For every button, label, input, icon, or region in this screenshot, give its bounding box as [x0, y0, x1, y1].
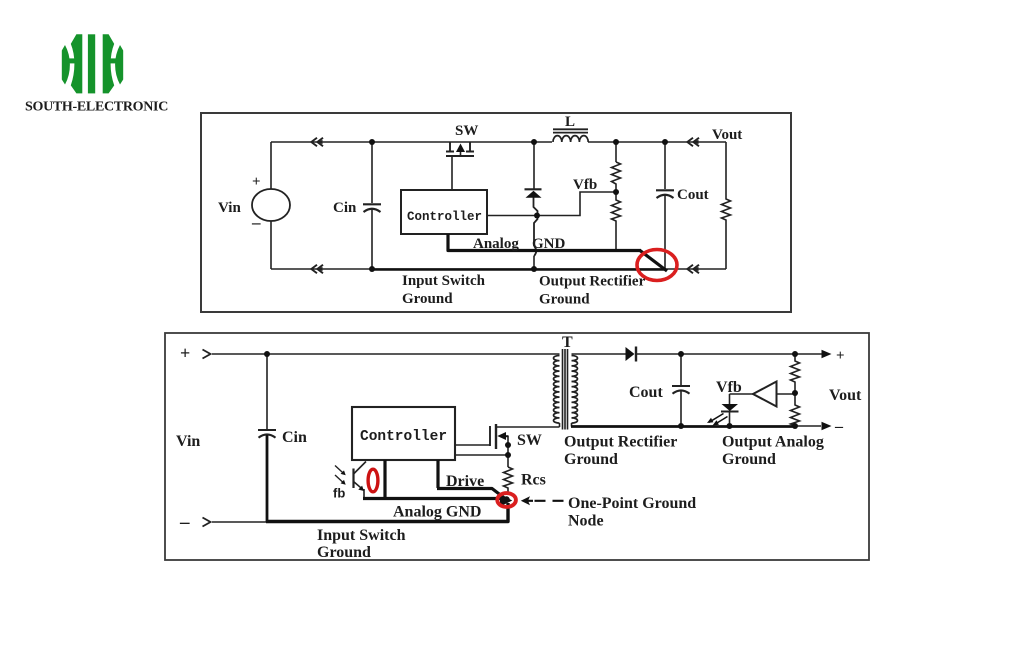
diode D1 triangle [526, 191, 542, 198]
logo right crescent [115, 45, 123, 85]
svg-text:Rcs: Rcs [521, 472, 546, 489]
wire: source sense pin [455, 454, 508, 456]
chevrons top-left [311, 138, 323, 147]
resistor divider lower (top Vfb) [612, 192, 621, 251]
resistor Rcs [504, 467, 513, 493]
thick ground traces (top schematic) [372, 234, 667, 271]
error amplifier triangle [753, 382, 777, 407]
wire: controller fb pin [487, 215, 536, 217]
output arrow minus [822, 422, 832, 430]
svg-text:SW: SW [517, 432, 542, 449]
thick wire: bottom ground rail segment [372, 268, 666, 271]
phototransistor emitter [354, 482, 362, 489]
node divider bottom [792, 423, 798, 429]
svg-text:–: – [251, 213, 261, 232]
emitter arrowhead [358, 486, 364, 491]
thick wire: analog GND trace [448, 234, 641, 251]
inductor L [553, 129, 588, 132]
thick wire: Cin negative lead [266, 435, 269, 522]
wire hop over ground trace [534, 246, 536, 256]
dashed pointer line [527, 500, 566, 502]
resistor divider upper (top Vfb) [615, 142, 617, 162]
wire: source top lead [270, 142, 272, 189]
svg-text:Input Switch: Input Switch [402, 273, 486, 289]
labels (bottom schematic) [176, 334, 862, 561]
controller U1 (top) [401, 190, 487, 234]
logo left crossbar [67, 58, 76, 63]
logo left crescent [62, 45, 70, 85]
capacitor Cin (bottom) [266, 354, 268, 429]
node diode bottom [531, 266, 537, 272]
thick wire: diagonal to output ground [640, 251, 667, 272]
red ellipse mark on fb [368, 469, 378, 492]
logo left bar [71, 34, 83, 93]
chevrons bottom-left [311, 265, 323, 274]
bottom schematic frame [165, 333, 869, 560]
node Cout bottom [678, 423, 684, 429]
node Cout top (bottom schematic) [678, 351, 684, 357]
highlight circle (no-connect mark, top) [637, 250, 677, 281]
thick wire: drive trace [437, 460, 505, 499]
one-point ground node [503, 496, 509, 502]
logo right crossbar [109, 58, 118, 63]
svg-text:fb: fb [333, 486, 345, 501]
wire: source column [507, 436, 509, 467]
junction dots (top schematic) [369, 139, 668, 272]
capacitor Cout (bottom) [680, 354, 682, 385]
output arrow plus [822, 350, 832, 358]
svg-text:Vfb: Vfb [716, 379, 742, 396]
svg-text:Ground: Ground [402, 291, 453, 307]
svg-text:+: + [180, 343, 190, 363]
node diode top [531, 139, 537, 145]
wire: bottom rail thin part [212, 521, 268, 523]
capacitor Cin (top) [371, 142, 373, 203]
svg-text:Ground: Ground [722, 451, 776, 468]
wire: output minus thin lead [795, 425, 821, 427]
transistor SW (top) [446, 142, 474, 152]
chevrons bottom-right [687, 265, 699, 274]
svg-text:Controller: Controller [407, 210, 482, 224]
chevrons top-right [687, 138, 699, 147]
wire: amp output [777, 393, 796, 395]
svg-text:Analog: Analog [473, 236, 519, 252]
dashed arrow head [521, 496, 530, 505]
svg-text:Output Analog: Output Analog [722, 434, 824, 451]
svg-text:One-Point Ground: One-Point Ground [568, 495, 696, 512]
svg-text:Ground: Ground [317, 544, 371, 561]
svg-text:GND: GND [532, 236, 566, 252]
logo emblem SOUTH-ELECTRONIC [62, 34, 123, 93]
svg-text:+: + [836, 348, 845, 364]
phototransistor fb bar [352, 469, 354, 489]
svg-text:Ground: Ground [564, 451, 618, 468]
svg-text:L: L [565, 114, 575, 130]
svg-text:Analog GND: Analog GND [393, 504, 481, 521]
resistor divider top (bottom right) [791, 354, 800, 393]
chevron - input [203, 518, 211, 527]
wire: rail after diode [636, 353, 822, 355]
svg-text:Cout: Cout [677, 187, 709, 203]
junction dots (bottom schematic) [264, 347, 832, 507]
node Cin top (bottom schematic) [264, 351, 270, 357]
svg-text:Node: Node [568, 513, 604, 530]
light arrow heads [341, 470, 346, 475]
svg-text:SW: SW [455, 123, 478, 139]
svg-text:–: – [179, 512, 190, 533]
diode D2 triangle [626, 347, 635, 361]
node divider mid [792, 390, 798, 396]
svg-text:Vin: Vin [218, 200, 241, 216]
logo center bar [88, 34, 95, 93]
svg-text:+: + [252, 174, 261, 190]
resistor divider bottom (bottom right) [791, 393, 800, 426]
svg-text:SOUTH-ELECTRONIC: SOUTH-ELECTRONIC [25, 100, 168, 115]
svg-text:Output Rectifier: Output Rectifier [564, 434, 677, 451]
transformer T primary winding [554, 356, 560, 424]
thick wire: analog GND trace [363, 460, 503, 499]
node Cin top [369, 139, 375, 145]
labels (top schematic) [218, 114, 742, 308]
node fb pin junction [534, 213, 540, 219]
svg-text:Input Switch: Input Switch [317, 527, 406, 544]
transistor SW arrow [456, 144, 465, 153]
wire: secondary top rail [572, 353, 627, 355]
wire: source bottom lead [270, 221, 272, 269]
thick wire: output rectifier ground rail [571, 425, 797, 428]
node LED bottom [727, 423, 733, 429]
node Cout top [662, 139, 668, 145]
wire: bottom rail [271, 268, 726, 270]
LED triangle [722, 404, 739, 411]
node Cin bottom [369, 266, 375, 272]
transistor SW channel [495, 424, 497, 449]
logo right bar [103, 34, 115, 93]
LED emit arrows [709, 414, 728, 425]
wire: amp input [730, 393, 754, 395]
svg-text:Output Rectifier: Output Rectifier [539, 274, 646, 290]
transistor SW arrow [497, 432, 506, 440]
wire: drain to transformer primary [496, 426, 560, 428]
wire: LED feedback column [729, 394, 731, 404]
svg-text:Vout: Vout [712, 127, 742, 143]
red circle one-point ground node [497, 493, 516, 507]
light arrows into fb [335, 466, 343, 483]
thick ground traces (bottom schematic) [266, 427, 797, 523]
wire: Vfb tap [537, 192, 616, 216]
node Vfb tap [613, 189, 619, 195]
svg-text:Cin: Cin [282, 429, 307, 446]
capacitor Cout (top) [664, 142, 666, 189]
chevron + input [203, 350, 211, 359]
node SW source arrow [505, 442, 511, 448]
node divider top (bottom schematic) [792, 351, 798, 357]
phototransistor collector [354, 462, 367, 475]
svg-text:Vin: Vin [176, 433, 200, 450]
node SW source sense [505, 452, 511, 458]
diode D1 (top) [533, 142, 535, 189]
node divider top [613, 139, 619, 145]
svg-text:Vout: Vout [829, 387, 862, 404]
wire: top rail [271, 141, 726, 143]
wire: emitter to analog gnd [363, 489, 365, 499]
controller U2 (bottom) [352, 407, 455, 460]
voltage source Vin (top) [252, 189, 290, 221]
svg-text:–: – [834, 418, 844, 435]
thick wire: input switch ground rail [266, 503, 508, 522]
svg-text:T: T [562, 334, 573, 351]
wire: gate drive pin [455, 444, 490, 446]
svg-text:Ground: Ground [539, 292, 590, 308]
svg-text:Drive: Drive [446, 473, 484, 490]
top schematic frame [201, 113, 791, 312]
svg-text:Cin: Cin [333, 200, 357, 216]
diode D2 cathode bar [635, 347, 637, 362]
transformer T secondary winding [572, 356, 578, 424]
resistor load (top right) [722, 142, 731, 269]
transformer T core [563, 349, 568, 430]
wire: top rail (primary side) [212, 353, 560, 355]
transistor SW (bottom) gate bracket [489, 426, 491, 446]
svg-text:Cout: Cout [629, 384, 663, 401]
svg-text:Controller: Controller [360, 429, 447, 445]
LED cathode bar [721, 411, 739, 413]
svg-text:Vfb: Vfb [573, 177, 597, 193]
